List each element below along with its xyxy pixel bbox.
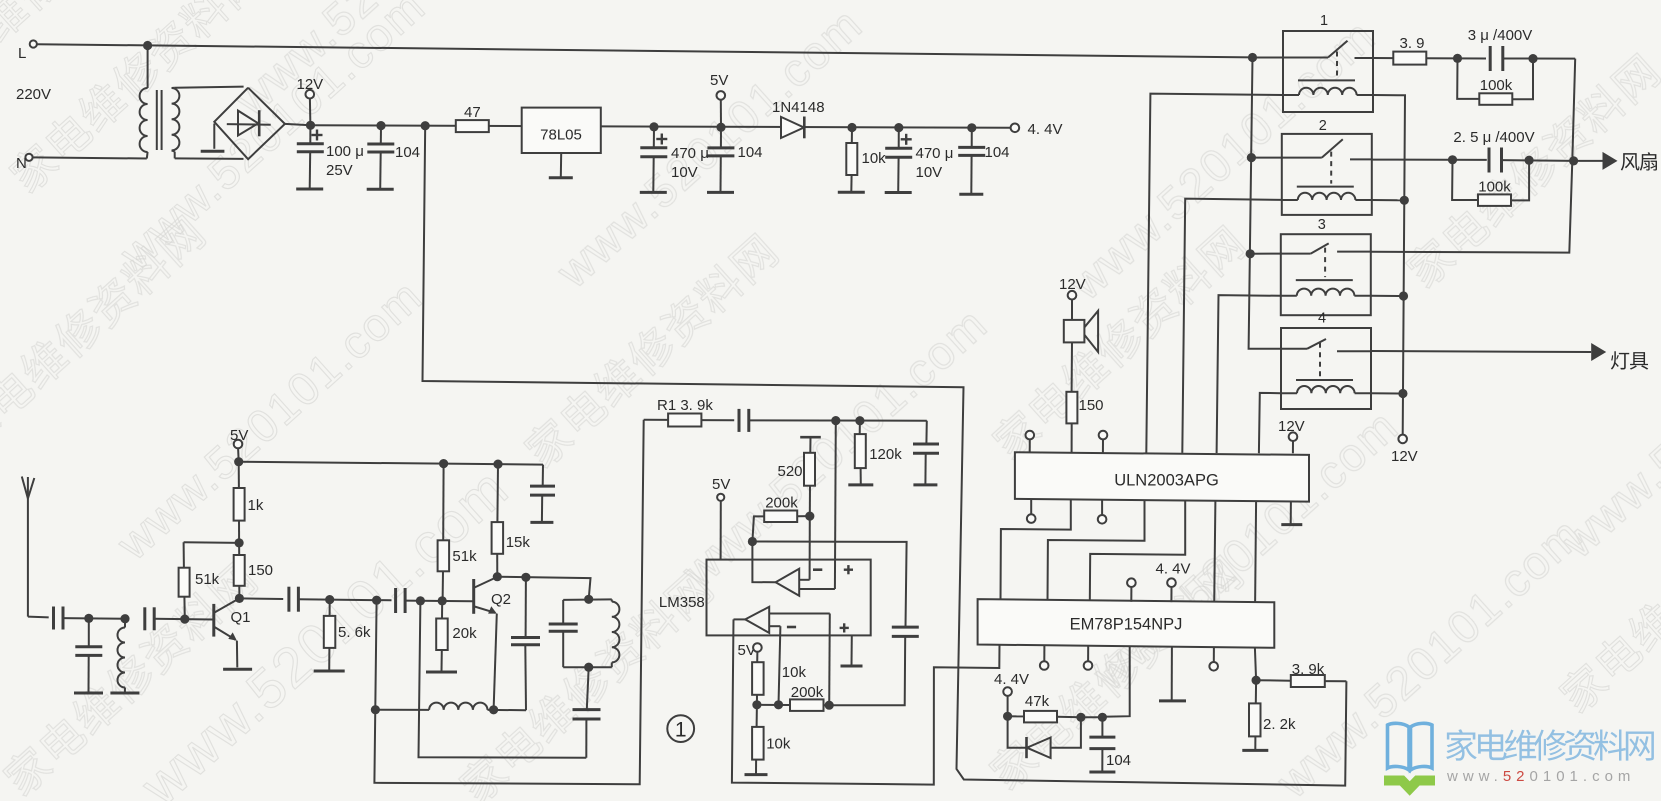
- terminal 5V divider: [738, 642, 762, 662]
- ground 120k: [848, 483, 873, 486]
- wire relay4 coil to rail: [1371, 392, 1403, 394]
- relay 2 box: [1282, 134, 1372, 215]
- ground 20k: [426, 671, 457, 674]
- arrow to lamp output 灯具: [1371, 343, 1648, 370]
- wire relay2 coil to ULN pin: [1182, 199, 1282, 453]
- capacitor 2.5u/400V: [1453, 129, 1534, 173]
- capacitor C19 to ground: [913, 421, 939, 485]
- node tank bottom: [584, 663, 593, 672]
- ground EM78: [1159, 647, 1186, 701]
- ULN2003 pin top 1: [1026, 431, 1035, 453]
- svg-text:L: L: [18, 45, 26, 62]
- node relay1 cap left: [1453, 54, 1462, 63]
- ground ULN2003: [1281, 501, 1302, 524]
- wire relay1 coil to ULN pin: [1146, 94, 1283, 453]
- node 5V rail C4: [716, 123, 725, 132]
- relay 4 armature bar: [1296, 379, 1353, 381]
- node 520/200k junction: [805, 511, 814, 520]
- svg-text:25V: 25V: [326, 162, 353, 179]
- ground for C1: [296, 188, 323, 191]
- ground timing 104: [1089, 771, 1115, 774]
- node 5.6k: [325, 595, 334, 604]
- wire opamp1 output: [752, 542, 775, 583]
- wire relay1 output to 3.9: [1374, 57, 1394, 59]
- resistor 100k (relay1 snubber): [1457, 58, 1533, 104]
- svg-text:5V: 5V: [712, 476, 730, 493]
- node C2 104: [376, 121, 385, 130]
- tank circuit cap: [549, 599, 612, 667]
- wire relay coil 12V rail: [1373, 95, 1405, 435]
- node osc feedback tap: [372, 596, 381, 605]
- node osc line left: [371, 705, 380, 714]
- node relay2 cap right: [1525, 156, 1534, 165]
- terminal 5V LM358 VCC: [712, 476, 730, 560]
- resistor 120k: [855, 421, 902, 485]
- ground C11: [74, 692, 103, 695]
- wire Q1 collector line: [239, 597, 283, 600]
- ground C19: [913, 483, 937, 486]
- node Q1 collector: [235, 594, 244, 603]
- relay 4 switch link (dashed): [1319, 343, 1321, 377]
- resistor 150 (Q1 load): [234, 543, 273, 599]
- svg-text:4. 4V: 4. 4V: [994, 671, 1029, 688]
- wire rail to relay3: [1250, 253, 1282, 255]
- EM78 pin bottom circle c: [1209, 647, 1218, 671]
- svg-text:100k: 100k: [1478, 179, 1511, 196]
- resistor 47: [456, 104, 489, 132]
- relay 2 coil: [1281, 193, 1373, 200]
- terminal 5V receiver: [230, 427, 248, 462]
- relay 2 switch: [1281, 139, 1373, 159]
- relay 4 coil: [1280, 386, 1372, 393]
- node C5 470u: [894, 123, 903, 132]
- svg-text:LM358: LM358: [659, 594, 705, 611]
- svg-text:150: 150: [1079, 397, 1104, 414]
- wire 5V receiver rail: [239, 462, 543, 465]
- svg-text:10V: 10V: [671, 164, 698, 181]
- ULN2003 pin bottom 3: [1098, 500, 1107, 524]
- relay 2 switch link (dashed): [1330, 152, 1332, 184]
- resistor 51k (Q2 bias high): [438, 464, 477, 601]
- node tank feed: [416, 596, 425, 605]
- svg-text:15k: 15k: [506, 534, 531, 551]
- svg-text:4. 4V: 4. 4V: [1155, 561, 1190, 578]
- node relay1 cap right: [1528, 54, 1537, 63]
- wire main-bus sense loop (bus to bottom right): [423, 126, 1347, 786]
- svg-text:120k: 120k: [869, 446, 902, 463]
- node top-bus / transformer junction: [143, 41, 152, 50]
- terminal 4.4V rail: [1011, 121, 1063, 138]
- svg-text:78L05: 78L05: [540, 127, 582, 144]
- wire opamp1 - input to 520 node: [809, 516, 811, 580]
- relay 2 armature bar: [1297, 186, 1354, 188]
- relay 1 armature bar: [1298, 79, 1355, 81]
- wire EM78 pin to timing node: [1102, 646, 1129, 717]
- resistor 520 with top stub: [778, 437, 821, 516]
- wire opamp2 output to tip: [734, 618, 746, 620]
- capacitor 104 (timing): [1089, 717, 1131, 772]
- resistor 200k (upper): [752, 495, 809, 542]
- svg-text:104: 104: [395, 144, 420, 161]
- label opamp1 plus: [844, 569, 853, 571]
- resistor 1k: [234, 462, 264, 543]
- ground for C6: [959, 193, 983, 196]
- relay 1 switch link (dashed): [1336, 52, 1338, 78]
- svg-text:10V: 10V: [916, 164, 943, 181]
- svg-text:10k: 10k: [862, 150, 887, 167]
- svg-text:3. 9k: 3. 9k: [1292, 661, 1325, 678]
- node C6 104: [967, 123, 976, 132]
- ground 2.2k: [1242, 749, 1268, 752]
- node Q2 collector: [493, 572, 502, 581]
- resistor 10k (divider lower): [752, 705, 791, 775]
- svg-text:1N4148: 1N4148: [772, 99, 825, 116]
- EM78 pin top 4.4V b: [1167, 578, 1176, 602]
- capacitor C6 104: [958, 128, 1009, 194]
- svg-text:EM78P154NPJ: EM78P154NPJ: [1070, 616, 1183, 634]
- node 4.4V rail R 10k: [847, 123, 856, 132]
- svg-text:ULN2003APG: ULN2003APG: [1114, 472, 1219, 490]
- node sense divider: [1252, 676, 1261, 685]
- wire C18 to comparator net: [749, 419, 927, 421]
- ULN2003 pin bottom 1: [1027, 499, 1036, 523]
- svg-text:10k: 10k: [766, 736, 791, 753]
- wire ULN out B to EM78 (stair 1): [1001, 499, 1071, 601]
- svg-text:4. 4V: 4. 4V: [1028, 121, 1063, 138]
- relay 3 switch: [1280, 243, 1372, 253]
- resistor 3.9k (sense): [1256, 661, 1346, 687]
- capacitor C12 (coupling): [143, 607, 146, 630]
- wire N to transformer: [33, 157, 147, 158]
- relay 3 switch link (dashed): [1324, 248, 1326, 278]
- capacitor C3 470u/10V: [640, 127, 709, 192]
- wire ULN out to EM78 (stair 2): [1048, 500, 1145, 602]
- svg-text:R1 3. 9k: R1 3. 9k: [657, 397, 713, 414]
- wire relay2 coil to rail: [1372, 199, 1405, 201]
- relay 4 box: [1281, 328, 1371, 409]
- node 5V rail 15k: [493, 460, 502, 469]
- svg-text:2. 5 μ /400V: 2. 5 μ /400V: [1453, 129, 1534, 146]
- svg-text:104: 104: [985, 144, 1010, 161]
- terminal 12V relay common: [1391, 435, 1418, 465]
- node divider tap: [752, 700, 761, 709]
- capacitor C1 100u/25V: [297, 125, 364, 189]
- wire C13 to C14: [299, 599, 392, 600]
- antenna: [22, 477, 35, 617]
- svg-text:20k: 20k: [452, 625, 477, 642]
- ground for C5: [885, 191, 912, 194]
- inductor L1 (ant): [118, 619, 125, 693]
- speaker / buzzer: [1064, 300, 1098, 392]
- resistor R1 3.9k: [644, 397, 735, 427]
- capacitor C11 to ground: [75, 618, 102, 692]
- regulator U1 78L05: [522, 108, 601, 153]
- svg-text:4: 4: [1318, 311, 1326, 327]
- resistor 2.2k: [1249, 680, 1296, 750]
- wire C12 to Q1 base: [154, 618, 213, 621]
- transistor Q1: [214, 600, 251, 641]
- wire relay3 output up to fan node: [1372, 161, 1573, 253]
- ground for C3: [640, 191, 667, 194]
- svg-text:2. 2k: 2. 2k: [1263, 716, 1296, 733]
- node fan output: [1569, 156, 1578, 165]
- svg-text:104: 104: [738, 144, 763, 161]
- capacitor C20 (integrator): [892, 626, 919, 629]
- resistor 15k (Q2 load): [492, 464, 531, 577]
- ground for C4: [707, 191, 734, 194]
- EM78 pin bottom circle a: [1040, 645, 1049, 670]
- node ant filter a: [84, 614, 93, 623]
- svg-text:12V: 12V: [1391, 448, 1418, 465]
- capacitor C17 (tank bottom): [573, 667, 601, 758]
- ground for C2: [367, 188, 394, 191]
- svg-text:N: N: [16, 155, 27, 172]
- relay 1 switch: [1282, 41, 1374, 58]
- terminal L (AC live input): [18, 40, 37, 62]
- svg-text:www.520101.com: www.520101.com: [1446, 768, 1635, 785]
- ground LM358: [841, 635, 863, 666]
- wire opamp2 + input down to 200k node: [828, 614, 831, 706]
- label opamp2 minus: [787, 626, 796, 629]
- logo book icon: [1384, 723, 1435, 788]
- resistor 10k (divider upper): [752, 662, 806, 705]
- wire tank bottom feed: [419, 601, 587, 758]
- node tank top: [584, 595, 593, 604]
- wire relay3 coil to rail: [1371, 295, 1404, 297]
- op-amp U4B (lower): [745, 607, 830, 633]
- wire relay3 coil to ULN pin: [1217, 295, 1281, 453]
- EM78 pin top 4.4V a: [1127, 578, 1136, 601]
- node ant filter b: [120, 614, 129, 623]
- wire 51k top to 1k node: [184, 541, 240, 544]
- capacitor C2 104: [367, 126, 420, 190]
- resistor 20k (Q2 bias low): [436, 601, 477, 672]
- svg-text:47k: 47k: [1025, 693, 1050, 710]
- svg-text:5. 6k: 5. 6k: [338, 624, 371, 641]
- svg-text:Q1: Q1: [231, 609, 251, 626]
- relay 1 coil: [1282, 88, 1374, 95]
- capacitor C18 (detector coupling): [738, 409, 741, 432]
- capacitor C10 (ant coupling): [52, 607, 55, 630]
- capacitor C14 (interstage 2): [394, 588, 397, 613]
- svg-text:51k: 51k: [452, 548, 477, 565]
- label opamp2 plus: [840, 627, 849, 629]
- terminal 12V buzzer: [1059, 276, 1086, 300]
- IC U3 EM78P154NPJ: [978, 599, 1275, 648]
- wire relay2 cap right to fan node: [1502, 159, 1574, 162]
- node Q2 emitter osc: [489, 705, 498, 714]
- node comp + input: [831, 416, 840, 425]
- svg-text:200k: 200k: [765, 495, 798, 512]
- wire ULN out to EM78 (stair 3): [1090, 500, 1185, 602]
- ground for 10k: [838, 191, 865, 194]
- node Q1 base bias: [180, 615, 189, 624]
- svg-text:2: 2: [1319, 118, 1327, 134]
- svg-text:1: 1: [675, 719, 687, 742]
- wire relay4 coil to ULN pin: [1259, 393, 1281, 453]
- transformer T1: [140, 46, 244, 159]
- node relay2 live: [1247, 153, 1256, 162]
- resistor 51k (Q1 bias): [179, 542, 220, 619]
- svg-text:3. 9: 3. 9: [1399, 35, 1424, 52]
- wire Q2 collector line: [497, 577, 590, 600]
- wire bridge output: [285, 124, 311, 125]
- svg-text:10k: 10k: [782, 664, 807, 681]
- svg-text:520: 520: [778, 463, 803, 480]
- wire relay1 chain down to fan node: [1572, 59, 1575, 161]
- ground divider: [745, 773, 768, 776]
- resistor 200k (lower): [790, 684, 829, 711]
- wire antenna to C10: [28, 616, 49, 619]
- node Q1 collector load: [235, 538, 244, 547]
- svg-text:100k: 100k: [1480, 77, 1513, 94]
- wire EM78 sense pin down: [1255, 648, 1256, 681]
- ULN2003 pin top 8 12V clamp: [1278, 418, 1305, 453]
- svg-text:47: 47: [464, 104, 481, 121]
- wire opamp1 + input to detector net: [834, 421, 837, 589]
- ground Q1 emitter: [223, 668, 252, 671]
- ground L1: [110, 692, 139, 695]
- node relay4 coil 12V: [1398, 389, 1407, 398]
- node Q2 base divider: [438, 596, 447, 605]
- resistor 100k (relay2 snubber): [1452, 160, 1529, 206]
- relay 1 box: [1283, 31, 1373, 112]
- node osc cap top: [521, 573, 530, 582]
- ground for 78L05: [549, 153, 573, 178]
- node rectifier output 12V rail: [306, 121, 315, 130]
- svg-text:12V: 12V: [297, 76, 324, 93]
- resistor 47k: [1008, 693, 1081, 722]
- bridge rectifier D1: [201, 88, 285, 160]
- wire relay live rail (L phase down relays): [1249, 58, 1281, 349]
- resistor 10k (4.4V bleeder): [846, 128, 886, 193]
- node 200k-lower right: [825, 701, 834, 710]
- node 120k: [855, 416, 864, 425]
- wire rail to relay1: [1253, 57, 1285, 59]
- wire Q1 emitter to ground: [236, 641, 238, 668]
- node 5V rail 51k-2: [439, 459, 448, 468]
- node relay2 cap left: [1448, 155, 1457, 164]
- wire relay1 cap right: [1503, 58, 1575, 60]
- wire LM358 output loop to EM78 input: [732, 619, 1000, 784]
- diode D2 1N4148: [772, 99, 825, 138]
- logo text 家电维修资料网: [1446, 729, 1654, 761]
- resistor 5.6k: [324, 600, 371, 671]
- diode D3 (parallel 47k): [1008, 716, 1081, 758]
- node relay3 live: [1246, 249, 1255, 258]
- wire top L bus: [37, 44, 1253, 57]
- wire opamp1 output net to C20: [752, 542, 906, 628]
- resistor 3.9 (relay1 output): [1393, 35, 1426, 65]
- svg-text:104: 104: [1106, 752, 1131, 769]
- svg-text:5V: 5V: [710, 72, 728, 89]
- IC U2 ULN2003APG: [1015, 452, 1309, 501]
- wire rail to relay2: [1251, 157, 1283, 159]
- ground C15: [530, 521, 553, 524]
- node timing 104: [1098, 713, 1107, 722]
- node relay3 coil 12V: [1399, 291, 1408, 300]
- tank circuit inductor L3: [612, 599, 620, 667]
- wire C14 to Q2 base: [405, 600, 472, 603]
- relay 3 box: [1281, 234, 1371, 315]
- node 47k left: [1003, 712, 1012, 721]
- node main bus to control loop: [421, 121, 430, 130]
- IC U4 LM358 box: [659, 560, 871, 636]
- svg-text:51k: 51k: [195, 571, 220, 588]
- relay 4 switch: [1280, 339, 1372, 351]
- terminal 4.4V (RC net): [994, 671, 1029, 716]
- wire divider line: [757, 704, 790, 706]
- node relay2 coil 12V: [1400, 196, 1409, 205]
- wire ULN-EM78 direct 2: [1255, 501, 1256, 604]
- svg-text:1: 1: [1320, 13, 1328, 29]
- node opamp1 output net: [748, 537, 757, 546]
- op-amp U4A (upper): [776, 569, 835, 596]
- wire main 12V bus: [311, 125, 1011, 128]
- svg-text:470 μ: 470 μ: [671, 145, 709, 162]
- transistor Q2: [474, 577, 511, 614]
- terminal N (AC neutral input): [16, 154, 33, 172]
- node 47k right: [1076, 713, 1085, 722]
- capacitor C13 (interstage): [287, 587, 290, 612]
- ground 5.6k: [314, 670, 345, 673]
- inductor L2 (osc): [375, 703, 526, 711]
- wire 47k node to 104 node: [1081, 716, 1103, 718]
- label circled 1: [667, 715, 694, 742]
- wire C20 to 200k-lower right: [829, 636, 905, 705]
- node 5V rail left: [234, 457, 243, 466]
- capacitor C5 470u/10V: [885, 128, 953, 193]
- svg-text:Q2: Q2: [491, 591, 511, 608]
- label opamp1 minus: [813, 568, 822, 571]
- relay 3 coil: [1280, 289, 1372, 296]
- wire C10 to node: [63, 617, 125, 620]
- node relay1 live: [1248, 53, 1257, 62]
- node opamp2 - net: [774, 700, 783, 709]
- wire relay2 output to cap: [1372, 159, 1487, 161]
- capacitor C16 (osc): [511, 577, 540, 710]
- terminal 12V (main supply): [297, 76, 324, 121]
- wire relay1 to cap: [1426, 57, 1486, 59]
- svg-text:220V: 220V: [16, 86, 51, 103]
- capacitor C15 (5V decoupling): [530, 465, 555, 523]
- wire osc feedback loop (left drop to R1): [374, 420, 643, 785]
- svg-text:1k: 1k: [248, 497, 264, 514]
- wire ULN-EM78 direct 1: [1214, 501, 1215, 604]
- node 5V rail C3: [649, 122, 658, 131]
- terminal 5V supply: [710, 72, 728, 127]
- ULN2003 pin top 3: [1099, 431, 1108, 453]
- svg-text:3: 3: [1318, 217, 1326, 233]
- svg-text:100 μ: 100 μ: [326, 143, 364, 160]
- arrow to fan output 风扇: [1574, 152, 1657, 171]
- capacitor 3u/400V: [1468, 27, 1533, 71]
- capacitor C4 104: [707, 127, 762, 192]
- svg-text:150: 150: [248, 562, 273, 579]
- resistor 150 (buzzer): [1066, 392, 1103, 453]
- EM78 pin bottom circle b: [1084, 646, 1093, 670]
- svg-text:470 μ: 470 μ: [916, 145, 954, 162]
- wire Q2 emitter down: [494, 614, 497, 710]
- relay 3 armature bar: [1296, 279, 1353, 281]
- wire opamp2 - input down to divider: [779, 626, 781, 705]
- svg-text:3 μ /400V: 3 μ /400V: [1468, 27, 1533, 44]
